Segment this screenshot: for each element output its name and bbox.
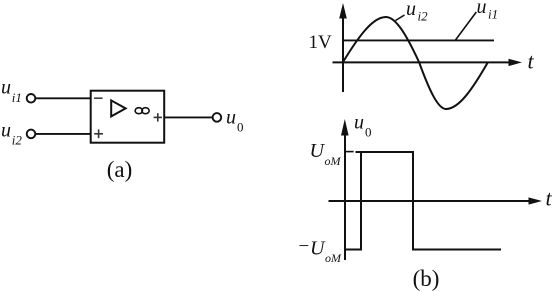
svg-text:u: u bbox=[226, 107, 236, 129]
bottom graph t axis bbox=[329, 197, 543, 204]
op-amp U1 body bbox=[91, 91, 165, 143]
svg-text:1V: 1V bbox=[309, 32, 333, 53]
svg-text:u: u bbox=[354, 112, 364, 134]
label u_i2 (top graph) bbox=[406, 0, 428, 24]
svg-text:0: 0 bbox=[365, 125, 372, 140]
svg-text:oM: oM bbox=[325, 251, 342, 265]
svg-text:i1: i1 bbox=[488, 7, 498, 22]
svg-text:i1: i1 bbox=[12, 90, 22, 105]
svg-text:i2: i2 bbox=[418, 9, 429, 24]
sine wave u_i2 bbox=[343, 17, 488, 109]
wire op-amp output to terminal u_0 bbox=[164, 116, 212, 118]
top graph vertical axis bbox=[339, 3, 347, 92]
svg-text:u: u bbox=[1, 119, 11, 141]
bottom graph vertical axis bbox=[341, 119, 349, 260]
label -U_oM bbox=[299, 236, 343, 265]
label u_0 (bottom graph) bbox=[354, 112, 372, 140]
wire u_i1 to op-amp inverting input bbox=[36, 97, 91, 99]
svg-text:oM: oM bbox=[325, 154, 342, 168]
u_i1 reference line at 1V level bbox=[343, 39, 494, 41]
svg-text:i2: i2 bbox=[12, 133, 23, 148]
op-amp output polarity sign + bbox=[154, 113, 162, 121]
op-amp gain symbol infinity bbox=[135, 108, 149, 114]
op-amp triangle symbol bbox=[111, 100, 125, 116]
svg-text:−: − bbox=[299, 236, 310, 257]
terminal u_0 bbox=[213, 113, 222, 122]
label u_i2 bbox=[1, 119, 22, 147]
label U_oM bbox=[310, 140, 342, 168]
pointer line to u_i1 reference line bbox=[456, 12, 477, 40]
svg-text:t: t bbox=[528, 48, 535, 73]
wire u_i2 to op-amp noninverting input bbox=[36, 133, 91, 135]
op-amp inverting input sign - bbox=[94, 97, 103, 99]
label u_i1 (top graph) bbox=[477, 0, 499, 22]
svg-text:u: u bbox=[1, 77, 11, 99]
terminal u_i1 bbox=[27, 94, 36, 103]
label u_0 bbox=[226, 107, 244, 135]
svg-text:(a): (a) bbox=[107, 157, 133, 182]
svg-text:0: 0 bbox=[237, 120, 244, 135]
top graph t axis bbox=[333, 59, 523, 66]
label u_i1 bbox=[1, 77, 22, 105]
tick at U_oM level bbox=[345, 151, 354, 153]
svg-text:u: u bbox=[477, 0, 487, 18]
square wave u_0 bbox=[346, 152, 502, 250]
terminal u_i2 bbox=[27, 130, 36, 139]
svg-text:U: U bbox=[310, 140, 326, 162]
pointer line to u_i2 curve bbox=[396, 15, 405, 21]
svg-text:(b): (b) bbox=[413, 266, 440, 291]
svg-text:t: t bbox=[546, 186, 553, 211]
op-amp noninverting input sign + bbox=[94, 129, 103, 138]
svg-text:U: U bbox=[310, 238, 326, 260]
svg-text:u: u bbox=[406, 0, 416, 20]
